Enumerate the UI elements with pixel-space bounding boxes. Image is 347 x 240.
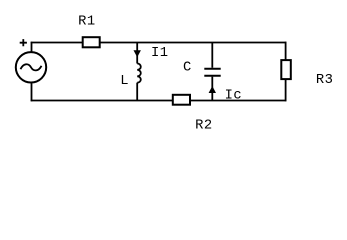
svg-text:L: L [120, 74, 129, 89]
svg-text:Ic: Ic [225, 88, 243, 103]
current arrow I1 (down) [134, 50, 141, 57]
wire source bottom stub [31, 83, 33, 101]
resistor R1 [83, 37, 100, 47]
svg-text:R2: R2 [195, 118, 213, 133]
svg-text:R3: R3 [316, 73, 334, 88]
wire source top stub [31, 42, 33, 52]
resistor R2 [173, 95, 190, 105]
inductor L (coil) [137, 64, 141, 83]
wire bottom (return net) [31, 100, 287, 102]
wire top (node between source, R1, L, C, R3) [31, 42, 287, 44]
svg-text:R1: R1 [78, 15, 96, 30]
current arrow Ic (up) [209, 86, 216, 93]
wire capacitor branch [211, 43, 213, 101]
resistor R3 [281, 60, 291, 79]
svg-text:C: C [183, 61, 192, 76]
wire inductor branch [136, 43, 138, 101]
ac source V1 [16, 52, 46, 82]
plus polarity mark [20, 39, 27, 46]
capacitor C plates [204, 69, 220, 76]
wire right branch (R3 branch) [285, 42, 287, 102]
svg-text:I1: I1 [151, 46, 169, 61]
